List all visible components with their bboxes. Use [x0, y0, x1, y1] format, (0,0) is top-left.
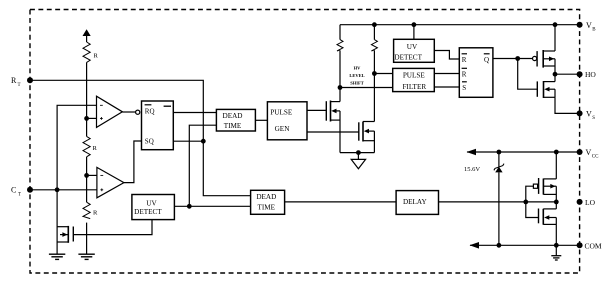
svg-text:V: V — [586, 148, 592, 157]
wire delay to LO driver — [439, 201, 557, 203]
inverter bubble at PMOS Q6 gate — [533, 184, 537, 188]
wire pulse filter to latch S — [434, 86, 459, 88]
node comparator1 plus input — [84, 116, 96, 121]
svg-text:TIME: TIME — [258, 204, 276, 212]
wire uv detect 1 to discharge gate — [73, 220, 152, 235]
wire comparator1 feedback — [57, 105, 96, 190]
wire R3 to ground — [86, 223, 88, 254]
svg-text:TIME: TIME — [224, 122, 242, 130]
wire pulse gen to Q2 gate — [307, 109, 326, 111]
wire latch Q to HO driver gates — [493, 58, 533, 60]
wire VB rail to R4 — [339, 25, 341, 40]
node zener top — [497, 150, 502, 155]
wire SQ output to junction — [173, 140, 203, 142]
svg-text:15.6V: 15.6V — [464, 166, 480, 173]
wire CT to discharge FET drain — [56, 190, 58, 254]
transistor Q6 (LO high PMOS) — [539, 152, 557, 202]
pin RT — [11, 76, 33, 88]
wire comparator1 output — [122, 111, 135, 113]
svg-text:DELAY: DELAY — [403, 198, 428, 206]
node HO gate branch — [515, 56, 520, 61]
node zener bottom — [497, 243, 502, 248]
wire UV row to dead time 1 input — [189, 125, 216, 206]
inverter bubble at PMOS Q4 gate — [533, 56, 537, 60]
node level shift common — [356, 150, 361, 159]
ground VSS triangle — [351, 159, 365, 168]
wire R2 to R3 — [86, 157, 88, 202]
svg-text:S: S — [462, 84, 466, 92]
svg-text:R: R — [93, 145, 98, 152]
wire uv detect 2 to latch R1 — [434, 51, 459, 60]
svg-text:RQ: RQ — [145, 108, 155, 116]
node RT/SQ junction — [201, 139, 206, 144]
wire uv detect 2 supply — [413, 25, 415, 40]
svg-text:DEAD: DEAD — [256, 193, 276, 201]
node COM ground — [554, 243, 559, 256]
svg-text:T: T — [18, 83, 21, 88]
transistor Q4 (HO high PMOS) — [537, 25, 555, 74]
node VB pull-up right — [372, 22, 377, 27]
svg-text:HV: HV — [354, 66, 362, 71]
inverter bubble at flip-flop R input — [136, 110, 140, 114]
node uv detect 2 supply — [412, 22, 417, 27]
svg-text:UV: UV — [146, 199, 157, 207]
transistor Q3 (HV level shift low side) — [359, 122, 375, 153]
comparator U2 — [97, 167, 124, 197]
svg-text:V: V — [586, 109, 592, 118]
wire R1 to divider node — [86, 62, 88, 136]
svg-text:T: T — [18, 193, 21, 198]
svg-text:PULSE: PULSE — [270, 109, 293, 117]
svg-text:UV: UV — [407, 43, 418, 51]
node HO output — [553, 72, 580, 77]
zener D1 — [494, 152, 504, 245]
svg-text:HO: HO — [585, 70, 596, 79]
transistor Q1 discharge — [57, 226, 73, 243]
node VB PMOS drain — [553, 22, 558, 27]
svg-text:R: R — [93, 210, 98, 217]
node comparator2 minus input — [84, 173, 97, 178]
node uv junction — [187, 204, 192, 209]
pin VCC — [577, 148, 600, 160]
pin VS — [577, 109, 596, 121]
wire pulse filter to latch R2 — [434, 73, 459, 75]
svg-text:DEAD: DEAD — [223, 112, 243, 120]
wire R5 to Q3 drain — [373, 50, 375, 121]
svg-text:SHIFT: SHIFT — [350, 80, 364, 85]
svg-text:LO: LO — [585, 198, 596, 207]
svg-text:C: C — [11, 186, 16, 195]
node CT feedback junction — [55, 187, 60, 192]
wire uv detect 1 output row — [174, 205, 250, 207]
arrow VCC rail left — [467, 149, 477, 156]
VCC arrow up (oscillator supply) — [83, 29, 91, 42]
pin VB — [577, 21, 597, 33]
resistor R1 — [83, 42, 99, 62]
label HV level shift — [349, 66, 364, 86]
node pulse filter input B junction — [338, 85, 393, 90]
box pulse filter — [393, 68, 435, 91]
transistor Q7 (LO low NMOS) — [539, 202, 557, 225]
arrow COM rail left — [470, 242, 480, 249]
svg-text:S: S — [592, 116, 595, 121]
box dead time 2 — [251, 190, 285, 214]
pin CT — [11, 186, 33, 198]
svg-text:R: R — [94, 53, 99, 60]
wire to NMOS Q7 gate — [526, 202, 539, 218]
box dead time 1 — [216, 109, 255, 131]
resistor R2 — [83, 136, 98, 156]
ground GND3 (COM) — [551, 256, 561, 260]
transistor Q2 (HV level shift high side) — [326, 101, 340, 153]
svg-text:CC: CC — [592, 155, 599, 160]
box delay — [396, 191, 438, 215]
wire RQ output to dead time 1 — [173, 112, 216, 114]
wire to NMOS Q5 gate — [518, 59, 538, 90]
VB rail — [340, 24, 580, 26]
wire Q5 source to VS — [555, 97, 580, 113]
pin HO — [577, 70, 597, 79]
box uv detect 1 — [132, 195, 175, 220]
svg-text:V: V — [586, 21, 592, 30]
svg-text:Q: Q — [484, 56, 489, 64]
wire CT row — [30, 189, 97, 191]
svg-text:COM: COM — [585, 241, 602, 250]
transistor Q5 (HO low NMOS) — [537, 74, 555, 98]
wire RT row — [30, 80, 251, 195]
wire VB rail to R5 — [373, 25, 375, 40]
node VCC PMOS drain — [554, 150, 559, 155]
node LO gate branch — [523, 200, 528, 205]
wire dead time 1 to pulse gen — [255, 119, 267, 121]
svg-text:FILTER: FILTER — [402, 83, 426, 91]
svg-text:PULSE: PULSE — [403, 72, 426, 80]
svg-text:R: R — [11, 76, 17, 85]
wire to PMOS Q6 gate — [526, 186, 534, 202]
box pulse gen — [267, 102, 307, 140]
VCC rail — [467, 151, 580, 153]
latch U4 — [459, 48, 493, 98]
svg-text:GEN: GEN — [275, 125, 291, 133]
wire R4 to Q2 drain — [339, 50, 341, 101]
svg-text:SQ: SQ — [145, 138, 154, 146]
svg-text:DETECT: DETECT — [394, 54, 422, 62]
svg-text:DETECT: DETECT — [134, 208, 162, 216]
node pulse filter input A junction — [372, 71, 393, 76]
flip-flop U3 — [142, 101, 174, 150]
ground GND2 (divider) — [78, 254, 94, 259]
comparator U1 — [97, 96, 123, 127]
ground GND1 (discharge FET source) — [49, 254, 65, 259]
wire pulse gen to Q3 gate — [307, 131, 359, 133]
wire Q7 source to COM — [555, 224, 557, 245]
resistor R4 (level shift pull-up left) — [337, 40, 343, 51]
wire dead time 2 to delay — [285, 201, 397, 203]
svg-text:R: R — [462, 71, 467, 79]
resistor R5 (level shift pull-up right) — [371, 40, 377, 51]
wire level shift common — [340, 152, 374, 154]
COM rail — [470, 244, 580, 246]
wire comparator2 output to SQ input — [124, 141, 142, 183]
box uv detect 2 — [394, 39, 435, 62]
pin COM — [577, 241, 602, 250]
resistor R3 — [83, 202, 98, 218]
svg-text:R: R — [462, 56, 467, 64]
pin LO — [577, 198, 596, 207]
node LO output — [554, 200, 559, 205]
svg-text:LEVEL: LEVEL — [349, 73, 364, 78]
